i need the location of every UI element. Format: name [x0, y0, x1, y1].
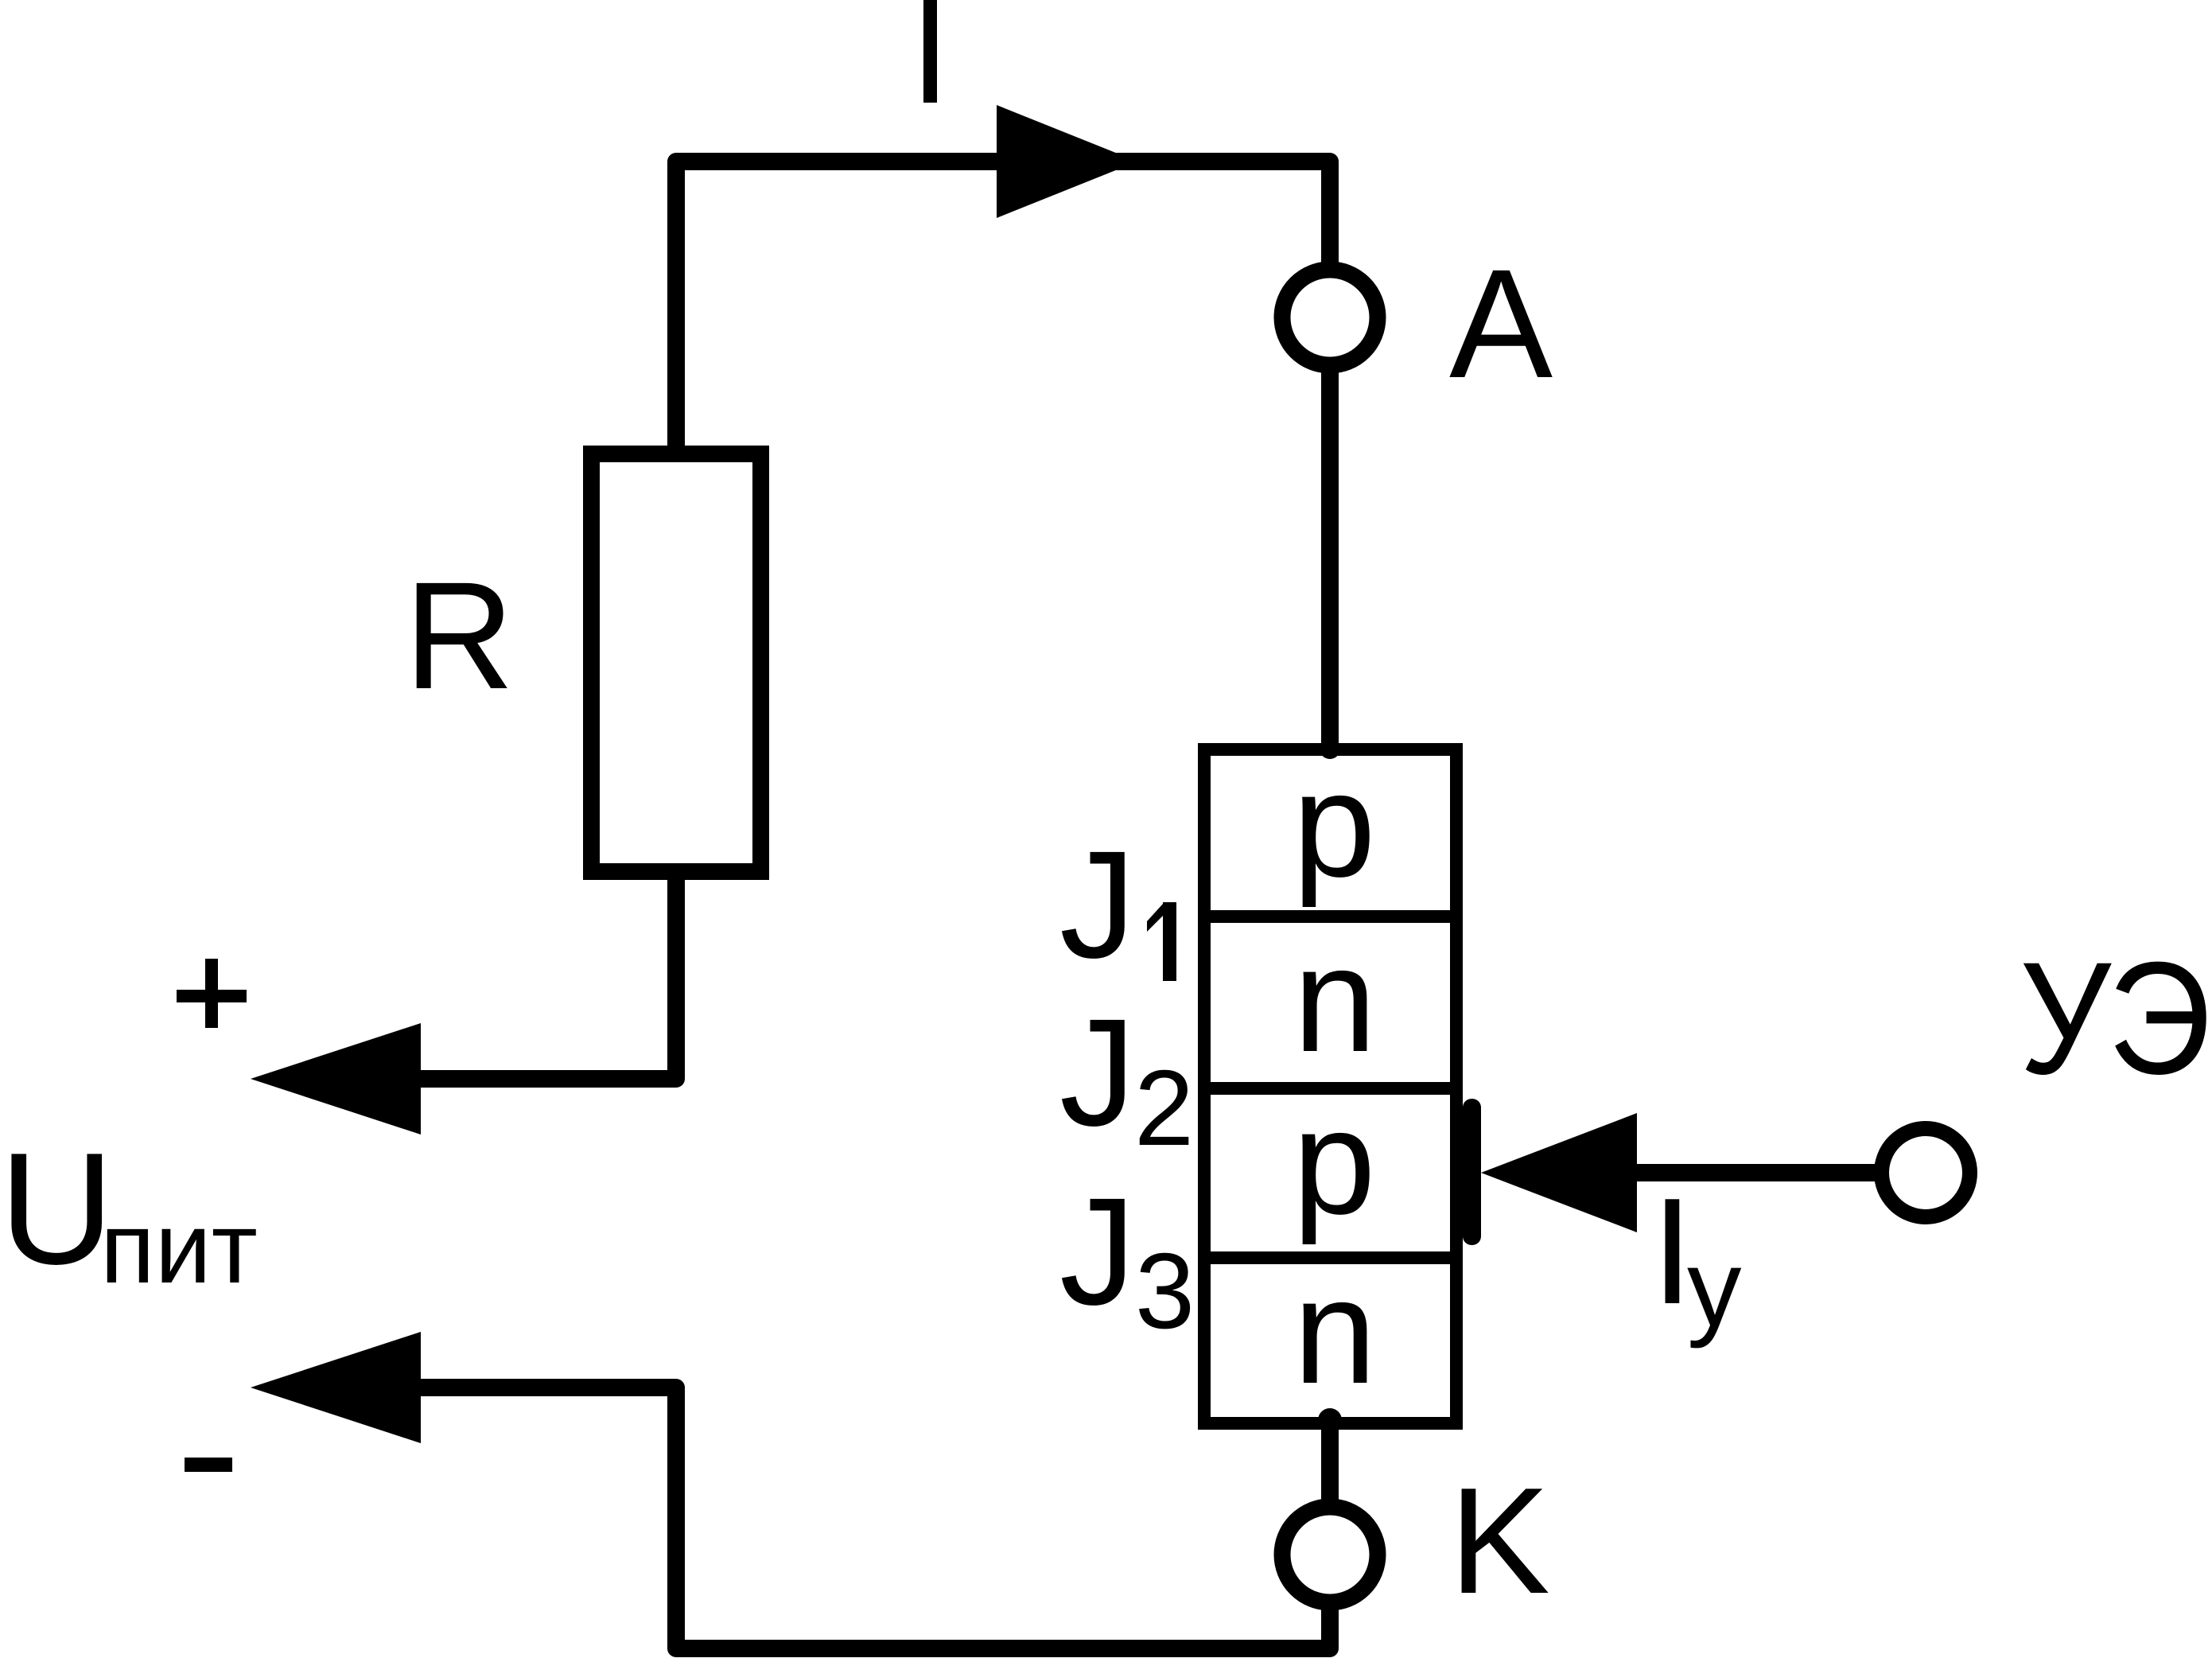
svg-text:J: J: [1059, 1166, 1136, 1337]
svg-text:J: J: [1059, 819, 1136, 990]
svg-text:p: p: [1293, 741, 1376, 908]
svg-text:n: n: [1293, 916, 1377, 1083]
svg-text:K: K: [1449, 1457, 1550, 1625]
svg-text:у: у: [1687, 1228, 1742, 1349]
svg-text:p: p: [1293, 1078, 1376, 1245]
svg-text:A: A: [1449, 237, 1553, 411]
svg-text:пит: пит: [100, 1191, 258, 1304]
svg-text:J: J: [1059, 987, 1136, 1158]
svg-text:U: U: [0, 1120, 114, 1298]
svg-text:2: 2: [1134, 1048, 1194, 1168]
svg-text:УЭ: УЭ: [2020, 928, 2211, 1107]
svg-text:R: R: [404, 550, 515, 721]
svg-text:3: 3: [1135, 1231, 1195, 1351]
svg-text:n: n: [1293, 1247, 1377, 1415]
